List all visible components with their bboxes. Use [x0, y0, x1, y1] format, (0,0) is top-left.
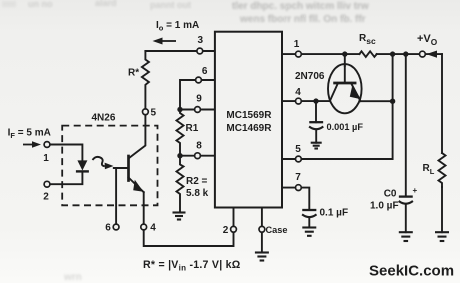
wire IC pin1 to Rsc: [282, 53, 359, 55]
capacitor C2 0.1uF top plate: [303, 209, 315, 211]
svg-text:0.1 µF: 0.1 µF: [320, 208, 349, 219]
svg-text:4: 4: [150, 223, 156, 234]
ground case: [255, 253, 269, 261]
terminal pin 8: [195, 153, 201, 159]
transistor Q1 collector: [330, 83, 338, 101]
phototransistor base lead: [114, 167, 129, 169]
junction emitter node: [390, 99, 395, 104]
junction output top left: [390, 51, 395, 56]
svg-text:tler dhpc. spch witcm lliv trw: tler dhpc. spch witcm lliv trw: [232, 1, 369, 12]
terminal opto pin 4: [141, 224, 147, 230]
svg-text:1: 1: [294, 39, 300, 50]
wire emitter to output: [361, 100, 393, 102]
terminal opto pin 6: [113, 224, 119, 230]
svg-text:MC1469R: MC1469R: [226, 123, 272, 134]
svg-text:0.001 µF: 0.001 µF: [327, 122, 364, 132]
svg-text:4N26: 4N26: [92, 113, 116, 124]
wire IC pin8: [180, 155, 215, 157]
svg-text:Case: Case: [266, 225, 288, 235]
wire opto pin4 to IC pin2: [144, 230, 234, 246]
resistor R*: [142, 51, 149, 109]
terminal opto pin 2: [44, 181, 50, 187]
svg-text:R* = |Vin -1.7 V| kΩ: R* = |Vin -1.7 V| kΩ: [143, 259, 241, 272]
svg-text:3: 3: [198, 35, 204, 46]
arrow IF input: [23, 141, 41, 147]
capacitor C1 top plate: [310, 121, 322, 123]
transistor Q1 base stem: [344, 66, 346, 83]
terminal opto pin 1: [44, 142, 50, 148]
ground RL: [435, 232, 449, 241]
svg-text:R2 =: R2 =: [186, 176, 208, 187]
ground C1: [311, 143, 322, 149]
resistor R1: [177, 110, 184, 156]
LED cathode bar: [77, 170, 88, 172]
junction pin9 R1: [177, 107, 182, 112]
svg-text:R*: R*: [128, 68, 139, 79]
svg-text:Io = 1 mA: Io = 1 mA: [156, 20, 199, 33]
svg-text:wrn: wrn: [63, 272, 82, 283]
light arrow squiggle: [93, 157, 105, 166]
svg-text:+: +: [413, 186, 418, 195]
wire IC pin4 to collector: [282, 100, 330, 102]
wire IC pin5 to output node: [282, 54, 393, 159]
wire opto pin5 collector stem: [129, 115, 145, 158]
svg-text:4: 4: [295, 87, 301, 98]
ground C0: [399, 232, 413, 241]
svg-text:SeekIC.com: SeekIC.com: [369, 263, 454, 280]
terminal pin 5: [296, 156, 302, 162]
terminal case: [259, 226, 265, 232]
wire C0 branch: [405, 54, 407, 197]
capacitor C1 0.001uF stem: [315, 101, 317, 122]
wire transistor base: [344, 54, 346, 66]
transistor Q1 emitter: [351, 83, 361, 101]
wire top node pin3 to IC: [145, 50, 215, 52]
svg-text:7: 7: [295, 172, 301, 183]
svg-text:MC1569R: MC1569R: [226, 110, 272, 121]
capacitor C2 bottom plate: [303, 215, 316, 217]
wire Rsc to +VO corner: [377, 53, 442, 55]
arrow Io: [153, 38, 177, 45]
wire case to ground: [261, 233, 263, 253]
light arrow head: [105, 163, 114, 170]
svg-text:6: 6: [105, 223, 111, 234]
wire opto emitter to pin4: [143, 192, 145, 224]
wire IC case stem: [261, 208, 263, 227]
svg-text:R1: R1: [186, 123, 199, 134]
junction base node: [342, 51, 347, 56]
terminal pin 3: [197, 48, 203, 54]
svg-text:IF = 5 mA: IF = 5 mA: [8, 128, 51, 141]
capacitor C0 top plate: [400, 195, 412, 197]
junction output top right: [403, 51, 408, 56]
phototransistor emitter: [129, 178, 144, 193]
svg-text:2: 2: [223, 225, 229, 236]
resistor R2: [177, 156, 184, 213]
phototransistor emitter arrow: [133, 180, 143, 192]
wire IC pin6: [180, 80, 215, 110]
resistor Rsc: [359, 51, 376, 57]
svg-text:5.8 k: 5.8 k: [186, 188, 209, 199]
wire LED cathode to input pin2: [50, 171, 82, 184]
wire opto base to pin6: [115, 168, 117, 224]
LED D1 triangle: [77, 160, 87, 170]
IC U1 box: [215, 32, 282, 208]
terminal pin 7: [296, 185, 302, 191]
ground C2: [302, 228, 316, 236]
terminal pin 2: [231, 226, 237, 232]
resistor RL: [439, 153, 446, 187]
wire RL to ground: [441, 187, 443, 232]
capacitor C2 ground stem: [308, 217, 310, 227]
svg-text:8: 8: [196, 141, 202, 152]
capacitor C1 bottom plate: [310, 127, 322, 129]
svg-text:6: 6: [202, 66, 208, 77]
ground R2: [173, 213, 186, 220]
svg-text:C0: C0: [384, 189, 397, 200]
terminal pin 1: [296, 51, 302, 57]
svg-text:un no: un no: [28, 0, 53, 9]
svg-text:5: 5: [151, 108, 157, 119]
svg-text:alard: alard: [95, 0, 117, 8]
svg-text:9: 9: [196, 94, 202, 105]
capacitor C1 ground stem: [315, 130, 317, 143]
svg-text:2N706: 2N706: [295, 71, 325, 82]
wire IC pin7: [282, 188, 309, 210]
svg-text:pannt out: pannt out: [150, 0, 191, 10]
phototransistor Q2 base bar: [127, 156, 130, 181]
transistor Q1 body: [328, 64, 362, 113]
svg-text:1.0 µF: 1.0 µF: [370, 201, 399, 212]
capacitor C0 bottom plate: [400, 202, 412, 204]
terminal +VO: [420, 51, 426, 57]
transistor Q1 base bar: [335, 82, 356, 85]
capacitor C0 ground stem: [405, 204, 407, 232]
terminal pin 9: [195, 107, 201, 113]
wire RL branch: [441, 54, 443, 153]
svg-text:2: 2: [43, 192, 49, 203]
svg-text:5: 5: [295, 144, 301, 155]
dashed box optocoupler 4N26: [62, 126, 157, 206]
wire IC pin2 stem: [233, 208, 235, 227]
wire input pin1 to LED anode: [50, 145, 82, 161]
terminal pin 6: [196, 77, 202, 83]
svg-text:wens fborr nfl fll. On fb. ffr: wens fborr nfl fll. On fb. ffr: [239, 14, 366, 25]
junction pin8 R2: [177, 153, 182, 158]
junction C1 node: [313, 98, 318, 103]
terminal opto pin 5: [143, 109, 149, 115]
svg-text:1: 1: [43, 153, 49, 164]
arrow +VO feed: [426, 51, 437, 58]
watermark SeekIC.com: [369, 263, 454, 280]
transistor Q1 emitter arrow: [350, 86, 361, 99]
terminal pin 4: [296, 98, 302, 104]
wire IC pin9: [180, 109, 215, 111]
